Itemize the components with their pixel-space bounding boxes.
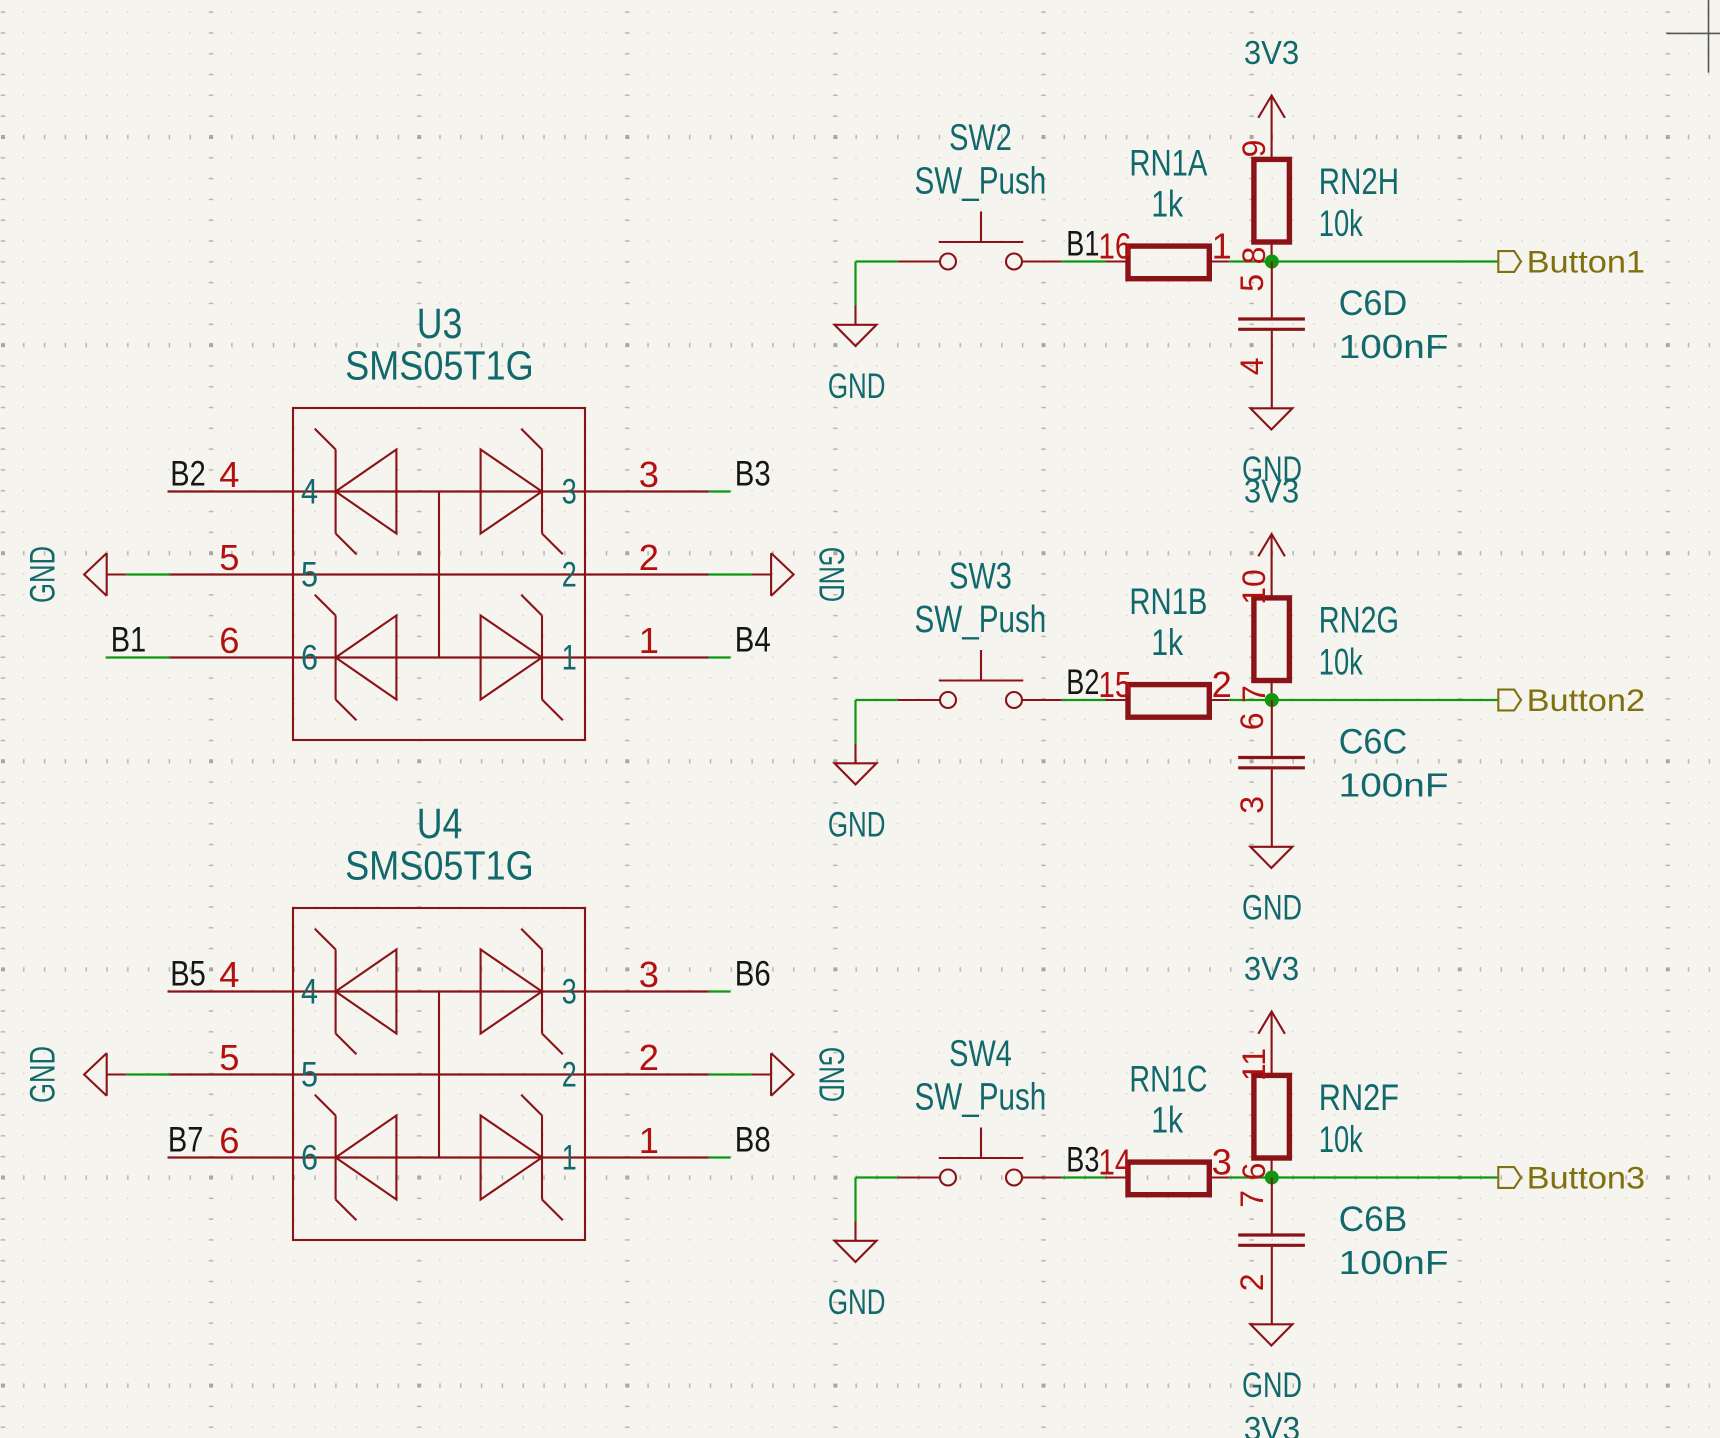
svg-text:6: 6 — [301, 1139, 318, 1178]
IC U4 SMS05T1G TVS diode array — [168, 800, 709, 1240]
svg-text:5: 5 — [219, 537, 239, 578]
svg-text:1: 1 — [562, 639, 577, 678]
svg-text:B7: B7 — [168, 1120, 204, 1160]
power symbol GND (right) — [752, 547, 852, 602]
svg-text:B4: B4 — [735, 620, 771, 660]
svg-text:3V3: 3V3 — [1244, 951, 1299, 988]
svg-text:Button3: Button3 — [1527, 1161, 1646, 1196]
svg-text:16: 16 — [1098, 226, 1131, 267]
svg-text:SW_Push: SW_Push — [915, 599, 1047, 641]
svg-text:Button2: Button2 — [1527, 683, 1646, 718]
svg-text:4: 4 — [301, 473, 318, 512]
svg-text:SW3: SW3 — [949, 555, 1012, 597]
svg-text:5: 5 — [301, 556, 318, 595]
power symbol GND (below capacitor) — [1242, 1324, 1302, 1405]
U3 pin 3 (right) — [562, 454, 709, 512]
svg-text:4: 4 — [1234, 358, 1270, 376]
svg-text:3: 3 — [639, 454, 659, 495]
svg-text:6: 6 — [219, 620, 239, 661]
svg-text:GND: GND — [23, 1046, 63, 1103]
svg-text:GND: GND — [23, 546, 63, 603]
hierarchical label Button3 — [1498, 1161, 1645, 1196]
capacitor C6B 100nF — [1234, 1178, 1449, 1325]
resistor RN1C 1k — [1098, 1058, 1231, 1195]
wire — [106, 656, 170, 658]
svg-text:U4: U4 — [417, 800, 463, 847]
U3 TVS diode lower-left — [315, 595, 397, 721]
svg-text:6: 6 — [301, 639, 318, 678]
svg-text:4: 4 — [301, 973, 318, 1012]
hierarchical label Button1 — [1498, 245, 1645, 280]
wire — [709, 490, 731, 492]
svg-text:B2: B2 — [1066, 662, 1099, 702]
svg-text:GND: GND — [1242, 888, 1302, 928]
svg-text:Button1: Button1 — [1527, 245, 1646, 280]
svg-text:1: 1 — [562, 1139, 577, 1178]
junction — [1265, 255, 1279, 269]
svg-text:RN1B: RN1B — [1129, 580, 1207, 622]
resistor RN2G 10k — [1236, 569, 1399, 703]
hierarchical label Button2 — [1498, 683, 1645, 718]
svg-text:GND: GND — [1242, 1365, 1302, 1405]
U4 TVS diode lower-left — [315, 1095, 397, 1221]
wire — [1062, 1176, 1106, 1178]
U4 TVS diode upper-left — [315, 929, 397, 1055]
wire — [709, 573, 752, 575]
U4 pin 5 (left) — [168, 1037, 586, 1095]
svg-text:C6D: C6D — [1339, 283, 1408, 323]
capacitor C6C 100nF — [1234, 700, 1449, 847]
wire — [126, 1073, 170, 1075]
svg-text:3V3: 3V3 — [1244, 1411, 1300, 1438]
wire — [709, 1156, 731, 1158]
U3 TVS diode upper-left — [315, 429, 397, 555]
power symbol GND (below switch) — [828, 744, 886, 845]
U4 pin 4 (left) — [168, 954, 586, 1012]
wire — [1062, 260, 1106, 262]
svg-text:10k: 10k — [1319, 641, 1363, 683]
U3 pin 1 (right) — [562, 620, 709, 678]
svg-text:6: 6 — [219, 1120, 239, 1161]
svg-text:11: 11 — [1236, 1048, 1272, 1081]
svg-text:3V3: 3V3 — [1244, 474, 1299, 511]
svg-text:5: 5 — [1234, 274, 1270, 292]
wire — [126, 573, 170, 575]
power symbol GND (right) — [752, 1047, 852, 1102]
svg-text:7: 7 — [1234, 1190, 1270, 1208]
svg-text:RN2F: RN2F — [1319, 1076, 1399, 1118]
svg-text:3: 3 — [562, 473, 577, 512]
switch SW2 SW_Push — [898, 116, 1062, 270]
svg-text:14: 14 — [1098, 1142, 1131, 1183]
svg-text:SW2: SW2 — [949, 116, 1012, 158]
junction — [1265, 1171, 1279, 1185]
svg-text:SW_Push: SW_Push — [915, 161, 1047, 203]
svg-text:B3: B3 — [735, 454, 771, 494]
U3 pin 2 (right) — [562, 537, 709, 595]
wire — [856, 1176, 898, 1178]
svg-text:2: 2 — [639, 537, 659, 578]
svg-text:RN1C: RN1C — [1129, 1058, 1207, 1100]
U4 pin 3 (right) — [562, 954, 709, 1012]
wire — [1229, 260, 1498, 262]
wire — [854, 262, 856, 306]
svg-text:2: 2 — [1234, 1274, 1270, 1292]
junction — [1265, 693, 1279, 707]
U4 pin 6 (left) — [168, 1120, 586, 1178]
svg-text:5: 5 — [301, 1056, 318, 1095]
U3 internal connection line — [438, 492, 440, 658]
svg-text:1k: 1k — [1151, 183, 1183, 225]
svg-text:100nF: 100nF — [1339, 1245, 1449, 1282]
resistor RN2F 10k — [1236, 1048, 1399, 1181]
wire — [1229, 1176, 1498, 1178]
wire — [709, 1073, 752, 1075]
IC U3 SMS05T1G TVS diode array — [168, 300, 709, 740]
U3 pin 5 (left) — [168, 537, 586, 595]
svg-text:B1: B1 — [1066, 224, 1099, 264]
power symbol 3V3 — [1244, 474, 1299, 577]
svg-text:GND: GND — [812, 1047, 852, 1102]
wire — [854, 1178, 856, 1222]
power symbol GND (below switch) — [828, 1222, 886, 1323]
svg-text:10k: 10k — [1319, 202, 1363, 244]
svg-text:4: 4 — [219, 454, 239, 495]
svg-text:3: 3 — [1212, 1142, 1232, 1183]
svg-text:100nF: 100nF — [1339, 767, 1449, 804]
svg-text:3: 3 — [562, 973, 577, 1012]
svg-text:2: 2 — [562, 556, 577, 595]
power symbol 3V3 — [1244, 35, 1299, 138]
wire — [854, 700, 856, 744]
U4 body — [293, 908, 585, 1240]
svg-text:C6B: C6B — [1339, 1199, 1408, 1239]
power symbol GND (below capacitor) — [1242, 847, 1302, 928]
svg-text:9: 9 — [1236, 140, 1272, 158]
svg-text:3V3: 3V3 — [1244, 35, 1299, 72]
wire — [856, 260, 898, 262]
wire — [709, 990, 731, 992]
switch SW4 SW_Push — [898, 1032, 1062, 1186]
U3 TVS diode upper-right — [481, 429, 563, 555]
U4 TVS diode upper-right — [481, 929, 563, 1055]
svg-text:15: 15 — [1098, 664, 1131, 705]
resistor RN2H 10k — [1236, 138, 1399, 264]
svg-text:3: 3 — [639, 954, 659, 995]
svg-text:100nF: 100nF — [1339, 329, 1449, 366]
svg-text:GND: GND — [828, 1282, 886, 1322]
svg-text:SW4: SW4 — [949, 1032, 1012, 1074]
svg-text:B2: B2 — [170, 454, 206, 494]
svg-text:1k: 1k — [1151, 621, 1183, 663]
U3 pin 6 (left) — [168, 620, 586, 678]
power symbol GND (left) — [23, 546, 127, 603]
resistor RN1A 1k — [1098, 142, 1231, 279]
svg-text:RN2G: RN2G — [1319, 599, 1399, 641]
svg-text:1: 1 — [639, 1120, 659, 1161]
U4 internal connection line — [438, 992, 440, 1158]
svg-text:3: 3 — [1234, 796, 1270, 814]
U4 pin 2 (right) — [562, 1037, 709, 1095]
U3 body — [293, 408, 585, 740]
resistor RN1B 1k — [1098, 580, 1231, 717]
power symbol GND (below switch) — [828, 306, 886, 407]
switch SW3 SW_Push — [898, 555, 1062, 709]
svg-text:1: 1 — [1212, 226, 1232, 267]
wire — [1062, 699, 1106, 701]
svg-text:SW_Push: SW_Push — [915, 1077, 1047, 1119]
power symbol GND (below capacitor) — [1242, 408, 1302, 489]
U4 TVS diode lower-right — [481, 1095, 563, 1221]
svg-text:2: 2 — [639, 1037, 659, 1078]
svg-text:GND: GND — [812, 547, 852, 602]
wire — [856, 699, 898, 701]
power symbol GND (left) — [23, 1046, 127, 1103]
svg-text:RN2H: RN2H — [1319, 160, 1399, 202]
svg-text:SMS05T1G: SMS05T1G — [345, 343, 534, 389]
svg-text:2: 2 — [562, 1056, 577, 1095]
U3 pin 4 (left) — [168, 454, 586, 512]
svg-text:U3: U3 — [417, 300, 463, 347]
svg-text:5: 5 — [219, 1037, 239, 1078]
U4 pin 1 (right) — [562, 1120, 709, 1178]
svg-text:10: 10 — [1236, 569, 1272, 605]
svg-text:RN1A: RN1A — [1129, 142, 1207, 184]
svg-text:10k: 10k — [1319, 1118, 1363, 1160]
svg-text:B3: B3 — [1066, 1140, 1099, 1180]
svg-text:1k: 1k — [1151, 1099, 1183, 1141]
svg-text:1: 1 — [639, 620, 659, 661]
svg-text:4: 4 — [219, 954, 239, 995]
svg-text:GND: GND — [828, 366, 886, 406]
svg-text:C6C: C6C — [1339, 721, 1408, 761]
svg-text:B6: B6 — [735, 954, 771, 994]
svg-text:B8: B8 — [735, 1120, 771, 1160]
svg-text:B5: B5 — [170, 954, 206, 994]
svg-text:B1: B1 — [111, 620, 147, 660]
svg-text:2: 2 — [1212, 664, 1232, 705]
svg-text:SMS05T1G: SMS05T1G — [345, 843, 534, 889]
power symbol 3V3 — [1244, 951, 1299, 1054]
U3 TVS diode lower-right — [481, 595, 563, 721]
wire — [709, 656, 731, 658]
wire — [1229, 699, 1498, 701]
svg-text:6: 6 — [1234, 713, 1270, 731]
svg-text:GND: GND — [828, 805, 886, 845]
capacitor C6D 100nF — [1234, 262, 1449, 409]
